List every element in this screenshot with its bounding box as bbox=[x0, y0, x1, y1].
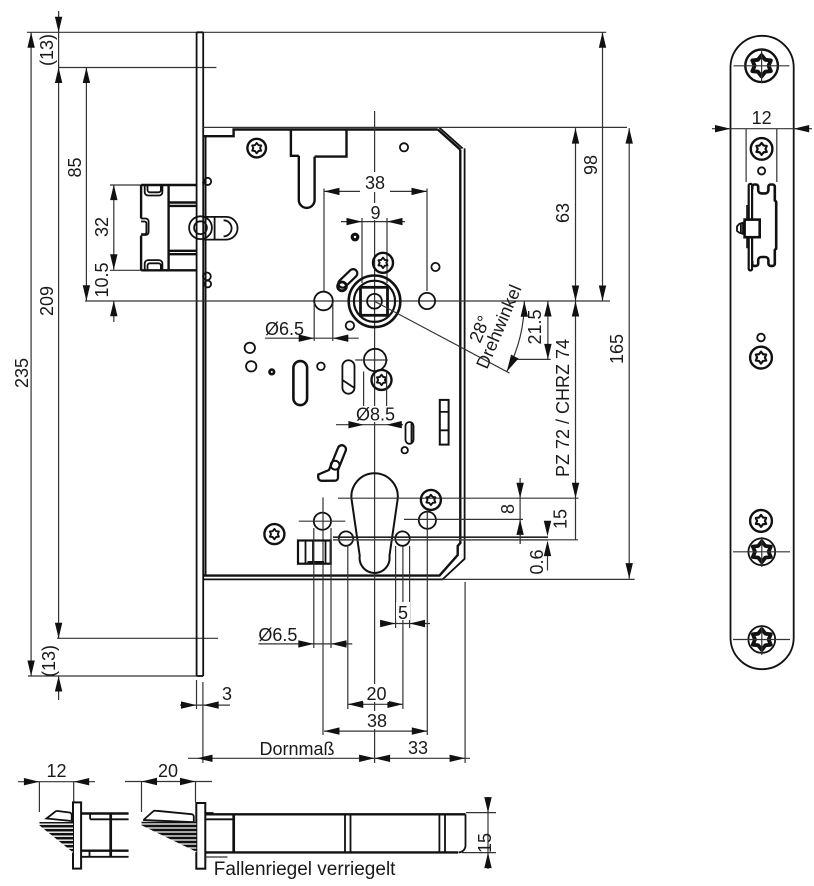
svg-text:9: 9 bbox=[370, 203, 380, 223]
case top ext line bbox=[203, 126, 627, 128]
arrow 13top down bbox=[55, 17, 62, 33]
arrow 235 top bbox=[27, 32, 34, 48]
svg-text:20: 20 bbox=[366, 684, 386, 704]
torx below O8.5 bbox=[372, 370, 392, 390]
case right edge double bbox=[203, 150, 460, 576]
dimension 85 line bbox=[85, 68, 87, 301]
dim 20 bbox=[125, 781, 212, 783]
hole O8.5 bbox=[364, 349, 386, 371]
horizontal centerline follower bbox=[85, 300, 610, 302]
hole 38 right bbox=[419, 293, 435, 309]
svg-text:165: 165 bbox=[607, 334, 627, 364]
svg-text:5: 5 bbox=[398, 603, 408, 623]
slot with flag bbox=[342, 360, 354, 394]
latch pin square bbox=[745, 220, 760, 238]
latch bolt roller circle on plate bbox=[189, 216, 212, 239]
extension line top (faceplate top) bbox=[27, 31, 606, 33]
svg-text:Ø8.5: Ø8.5 bbox=[356, 405, 395, 425]
svg-text:12: 12 bbox=[46, 761, 66, 781]
ext verticals bbox=[197, 511, 466, 763]
torx small bbox=[751, 138, 773, 160]
vertical stadium slot bbox=[293, 361, 307, 405]
small filled dot bbox=[351, 233, 360, 242]
arrow 32 bottom bbox=[110, 254, 117, 270]
arrow 32 top bbox=[110, 185, 117, 201]
small circle below follower left bbox=[346, 321, 354, 329]
arrow 13bottom up bbox=[55, 676, 62, 692]
main bar outline bbox=[205, 814, 465, 852]
big torx top crosshair bbox=[745, 50, 778, 83]
svg-text:Dornmaß: Dornmaß bbox=[259, 739, 334, 759]
latch body left edge bbox=[167, 185, 169, 271]
svg-text:98: 98 bbox=[581, 155, 601, 175]
small circle bbox=[758, 167, 765, 174]
torx lower1 bbox=[750, 510, 772, 532]
svg-text:235: 235 bbox=[12, 358, 32, 388]
svg-text:Ø6.5: Ø6.5 bbox=[265, 319, 304, 339]
small circle mid bbox=[757, 334, 765, 342]
dim 38 bottom bbox=[324, 730, 427, 732]
chamfer top right double bbox=[438, 130, 461, 150]
dim 12 bbox=[18, 781, 95, 783]
hole 38 left bbox=[314, 292, 333, 311]
big torx bottom crosshair bbox=[748, 626, 775, 653]
small circle right of torx bbox=[431, 263, 439, 271]
segmented rect bottom bbox=[298, 541, 331, 564]
svg-text:(13): (13) bbox=[37, 34, 57, 66]
svg-text:21.5: 21.5 bbox=[525, 309, 545, 344]
circle left crosshair bbox=[314, 513, 331, 530]
view1 case stub bbox=[81, 814, 129, 851]
arrow 235 bottom bbox=[27, 661, 34, 677]
svg-text:PZ 72 / CHRZ 74: PZ 72 / CHRZ 74 bbox=[553, 339, 573, 477]
plate hook bottom bbox=[203, 273, 211, 281]
view2 plate bbox=[196, 803, 205, 869]
cylinder horizontal centerline bbox=[338, 497, 579, 499]
big torx lower2 crosshair bbox=[748, 538, 775, 565]
dim 3 bbox=[180, 704, 230, 706]
view2 latch cap bbox=[144, 811, 194, 823]
svg-text:0.6: 0.6 bbox=[527, 549, 547, 574]
svg-text:38: 38 bbox=[367, 711, 387, 731]
plate hook top bbox=[204, 178, 211, 185]
view2 latch wedge hatched bbox=[142, 822, 197, 852]
svg-text:38: 38 bbox=[365, 173, 385, 193]
dim 8 bbox=[519, 478, 521, 544]
latch front view body with castellated ends bbox=[752, 185, 776, 266]
svg-text:209: 209 bbox=[37, 286, 57, 316]
T slot wide part bbox=[291, 130, 347, 157]
dim 12 right plate bbox=[712, 128, 812, 130]
extension line y638 bbox=[57, 637, 218, 639]
case bottom ext line bbox=[443, 578, 635, 580]
stadium slot right low bbox=[406, 422, 414, 444]
extension line y676 (faceplate bottom) bbox=[28, 675, 203, 677]
svg-text:3: 3 bbox=[222, 684, 232, 704]
top clip tab bbox=[145, 185, 163, 195]
latch extension lines bbox=[110, 185, 141, 270]
T slot narrow U bbox=[299, 156, 315, 208]
keyhole slot upper left of follower bbox=[338, 269, 357, 288]
torx screw above follower bbox=[373, 253, 393, 273]
svg-text:85: 85 bbox=[65, 157, 85, 177]
plate outline stadium bbox=[731, 36, 794, 669]
arrow 85 top bbox=[83, 68, 90, 84]
faceplate bar bbox=[197, 32, 204, 676]
view1 plate bbox=[73, 802, 81, 868]
spring plate top bbox=[169, 203, 196, 206]
case left edge bbox=[205, 136, 207, 575]
latch wing sliver bbox=[746, 205, 748, 248]
view1 latch wedge hatched bbox=[40, 822, 74, 852]
small circle below bbox=[402, 447, 408, 453]
arrow 209 top bbox=[55, 68, 62, 84]
torx mid bbox=[750, 347, 772, 369]
dimension 32/10.5 line bbox=[113, 185, 115, 322]
latch pin wedge bbox=[737, 222, 745, 234]
torx screw top bbox=[247, 139, 266, 158]
165 bbox=[628, 128, 630, 578]
torx screw lower left bbox=[264, 524, 284, 544]
dim O6.5 bottom bbox=[258, 643, 352, 645]
boot lever bbox=[318, 445, 346, 481]
98 bbox=[602, 32, 604, 301]
dim Dornmass / 33 bbox=[188, 757, 470, 759]
svg-text:20: 20 bbox=[158, 761, 178, 781]
dim 5 bbox=[380, 623, 430, 625]
extension line y67.5 bbox=[59, 67, 217, 69]
arrow 10.5 bottom bbox=[110, 301, 117, 317]
spring plate bottom bbox=[169, 251, 196, 254]
dimension 209 line bbox=[58, 11, 60, 700]
view1 latch cap bbox=[46, 811, 71, 821]
svg-text:33: 33 bbox=[408, 738, 428, 758]
small circles on 538 line bbox=[339, 531, 353, 545]
vertical centerline bbox=[374, 111, 376, 763]
svg-text:63: 63 bbox=[553, 203, 573, 223]
latch bevel bar bbox=[749, 184, 752, 271]
svg-text:(13): (13) bbox=[39, 645, 59, 677]
arrow 85 bottom bbox=[83, 285, 90, 301]
latch retainer outline bbox=[141, 185, 196, 270]
circle below torx bbox=[419, 512, 436, 529]
torx right of cylinder bbox=[421, 490, 441, 510]
arrow 209 bottom bbox=[55, 623, 62, 639]
svg-text:Fallenriegel verriegelt: Fallenriegel verriegelt bbox=[214, 859, 396, 880]
dimension 235 line bbox=[30, 32, 32, 676]
svg-text:15: 15 bbox=[475, 833, 495, 853]
dim 15 bottom right bbox=[462, 813, 496, 853]
svg-text:Ø6.5: Ø6.5 bbox=[258, 625, 297, 645]
latch retainer notch bbox=[141, 219, 149, 236]
svg-text:15: 15 bbox=[551, 509, 571, 529]
svg-text:12: 12 bbox=[752, 108, 772, 128]
3-segment strip bbox=[440, 400, 449, 445]
0.6 dim bbox=[544, 521, 551, 537]
double line 0.6 bbox=[333, 536, 548, 538]
latch bolt tail pill bbox=[203, 217, 237, 240]
case top edge with step bbox=[203, 130, 438, 137]
svg-text:8: 8 bbox=[498, 504, 518, 514]
svg-text:32: 32 bbox=[92, 217, 112, 237]
svg-text:10.5: 10.5 bbox=[92, 262, 112, 297]
dim 20 bbox=[348, 703, 403, 705]
bottom clip tab bbox=[145, 260, 163, 270]
small hole top right bbox=[400, 143, 408, 151]
